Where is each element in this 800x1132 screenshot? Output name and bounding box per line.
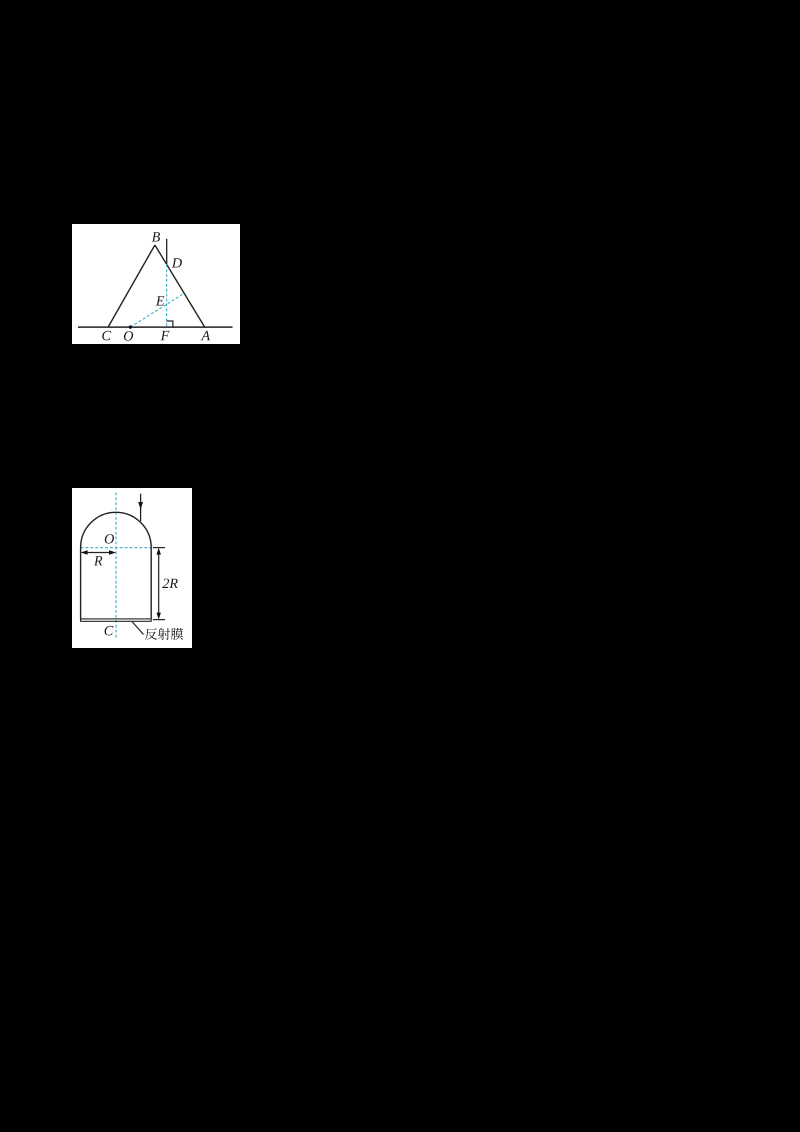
wire: base line through C O F A (78, 326, 233, 328)
panel 1: prism/triangle optics figure (72, 224, 240, 344)
node C label (102, 331, 111, 341)
node C label (105, 626, 114, 636)
wire: horizontal dashed diameter through O (81, 547, 152, 549)
wire: incident ray into D (166, 239, 168, 264)
node O label (105, 534, 114, 544)
node D label (172, 258, 182, 267)
right angle mark at F (167, 321, 173, 327)
R label (94, 556, 103, 565)
film label 反射膜 (145, 628, 183, 640)
node B label (152, 232, 160, 241)
triangle side BA (155, 245, 205, 327)
node A label (201, 331, 211, 340)
node O label (124, 331, 133, 341)
node F label (161, 331, 170, 340)
reflective film strip (81, 619, 152, 621)
node O dot (129, 325, 132, 328)
wire: vertical dashed axis (115, 493, 117, 639)
wire: incident ray (140, 494, 142, 522)
glass body: dome + side walls (81, 512, 152, 619)
arrowhead of incident ray (138, 502, 143, 510)
pointer line to film label (132, 622, 144, 635)
2R label (162, 579, 178, 588)
tick top of 2R (153, 547, 165, 549)
panel 2: dome-capped light guide figure (72, 488, 192, 648)
2R dimension line (158, 550, 160, 617)
tick bottom of 2R (153, 619, 165, 621)
R double arrow (83, 552, 115, 554)
triangle side BC (108, 245, 155, 327)
wire: dashed refracted ray D to F (166, 264, 168, 327)
node E label (156, 296, 165, 305)
wire: dashed ray O to E on side BA (130, 293, 184, 327)
